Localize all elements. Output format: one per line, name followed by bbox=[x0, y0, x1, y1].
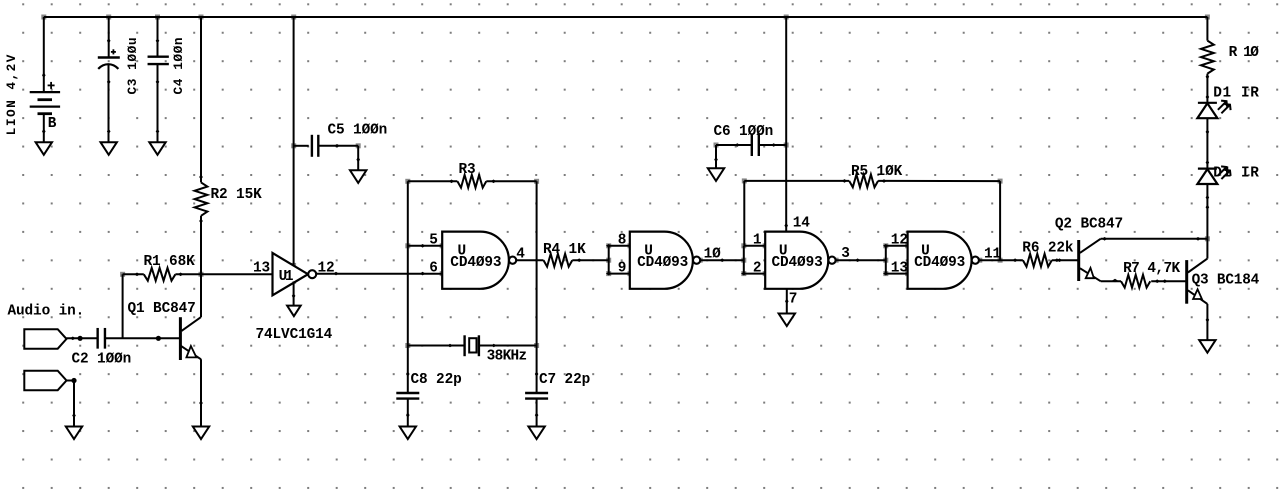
svg-text:6: 6 bbox=[429, 260, 438, 276]
resistor R1 68K bbox=[144, 254, 196, 281]
svg-text:7: 7 bbox=[789, 292, 798, 308]
ground Q1 bbox=[193, 427, 209, 440]
wire bus to R10 bbox=[1206, 17, 1208, 41]
label D1 IR upper bbox=[1213, 86, 1259, 102]
pin 1 label bbox=[753, 233, 762, 249]
resistor R 10 bbox=[1201, 41, 1259, 74]
wire U1 to ground bbox=[292, 281, 296, 305]
wire feedback left vertical bbox=[406, 181, 410, 392]
svg-text:R2 15K: R2 15K bbox=[211, 187, 263, 203]
connector audio flag 1 bbox=[24, 329, 66, 349]
wire C2 to Q1 base bbox=[105, 336, 180, 341]
transistor Q3 BC184 bbox=[1187, 259, 1260, 304]
wire C4 to ground bbox=[156, 64, 160, 142]
ground C8 bbox=[400, 427, 416, 440]
battery B LION 4,2V bbox=[30, 82, 60, 132]
capacitor C8 22p bbox=[396, 372, 461, 399]
wire gate2 input tie bbox=[606, 244, 630, 275]
wire R1 branch down bbox=[122, 274, 124, 338]
wire C7 to ground bbox=[535, 399, 539, 427]
wire R10 to LED1 bbox=[1206, 74, 1210, 103]
svg-text:74LVC1G14: 74LVC1G14 bbox=[256, 327, 333, 343]
resistor R4 1K bbox=[543, 242, 586, 267]
capacitor C3 100u bbox=[98, 49, 120, 69]
svg-text:C3 1ØØu: C3 1ØØu bbox=[125, 37, 140, 95]
wire Q2 collector to LED cathode bbox=[1101, 237, 1208, 241]
svg-text:2: 2 bbox=[753, 260, 762, 276]
wire LED2 to transistors bbox=[1206, 184, 1210, 239]
wire Q3 emitter to ground bbox=[1206, 304, 1210, 340]
pin 13 label bbox=[891, 260, 908, 276]
op-amp U1 inverter 74LVC1G14 bbox=[273, 253, 317, 295]
svg-text:C6 1ØØn: C6 1ØØn bbox=[714, 124, 774, 140]
ground C6 bbox=[708, 168, 724, 181]
wire flag1 to C2 bbox=[67, 336, 98, 341]
svg-text:Q1 BC847: Q1 BC847 bbox=[128, 301, 196, 317]
svg-text:C2 1ØØn: C2 1ØØn bbox=[72, 352, 132, 368]
svg-text:R7 4,7K: R7 4,7K bbox=[1123, 261, 1180, 277]
svg-text:CD4Ø93: CD4Ø93 bbox=[450, 255, 501, 271]
svg-text:LION 4,2V: LION 4,2V bbox=[4, 53, 19, 135]
wire C6 ground side bbox=[714, 143, 752, 168]
wire C4 to bus bbox=[156, 17, 160, 57]
pin 12 label bbox=[891, 233, 908, 249]
wire bus to U1 power bbox=[293, 17, 295, 266]
resistor R5 10K bbox=[849, 164, 902, 187]
resistor R6 22k bbox=[1022, 241, 1074, 267]
wire Q2 emitter to R7 bbox=[1101, 279, 1121, 283]
wire bus to R2 bbox=[199, 17, 203, 182]
pin 5 wire bbox=[408, 244, 442, 248]
wire R7 to Q3 base bbox=[1151, 279, 1187, 283]
svg-text:D1 IR: D1 IR bbox=[1213, 86, 1259, 102]
diode D1 IR upper bbox=[1197, 101, 1230, 119]
wire gate3 output to gate4 bbox=[836, 258, 886, 262]
resistor R2 15K bbox=[195, 182, 262, 215]
wire LED1 to LED2 bbox=[1206, 118, 1210, 168]
wire R6 to Q2 base bbox=[1052, 258, 1079, 262]
wire crystal left bbox=[408, 344, 465, 348]
label LION 4,2V bbox=[4, 53, 19, 135]
svg-text:R6 22k: R6 22k bbox=[1022, 241, 1074, 257]
pin 9 label bbox=[618, 260, 627, 276]
resistor R7 4,7K bbox=[1121, 261, 1181, 288]
nand gate U1A CD4093 bbox=[442, 232, 516, 289]
svg-text:B: B bbox=[48, 116, 57, 132]
wire feedback right vertical bbox=[535, 181, 539, 392]
wire gate4 output to R6 bbox=[979, 258, 1023, 262]
svg-text:1: 1 bbox=[753, 233, 762, 249]
wire R3 left bbox=[408, 180, 458, 184]
svg-text:8: 8 bbox=[618, 233, 627, 249]
ground C3 bbox=[101, 142, 117, 155]
ground Q3 bbox=[1199, 340, 1215, 353]
svg-text:13: 13 bbox=[253, 261, 270, 277]
capacitor C2 100n bbox=[72, 328, 132, 368]
wire Q1 collector bbox=[200, 274, 202, 317]
pin 14 label bbox=[793, 216, 811, 232]
wire gate3 input to R5 bbox=[744, 179, 849, 246]
pin 3 label bbox=[841, 246, 850, 262]
nand gate U1C CD4093 bbox=[765, 232, 835, 289]
wire node to R1 bbox=[123, 273, 144, 277]
wire U1 output to gate1 pin6 bbox=[316, 272, 442, 276]
wire crystal right bbox=[479, 344, 537, 348]
label 74LVC1G14 bbox=[256, 327, 333, 343]
capacitor C6 100n bbox=[714, 124, 774, 156]
label C3 100u bbox=[125, 37, 140, 95]
wire R4 to gate2 inputs bbox=[572, 258, 608, 262]
svg-text:9: 9 bbox=[618, 260, 627, 276]
pin 11 label bbox=[984, 247, 1002, 263]
svg-text:C4 1ØØn: C4 1ØØn bbox=[171, 37, 186, 95]
pin 7 label bbox=[789, 292, 798, 308]
svg-text:R4 1K: R4 1K bbox=[543, 242, 586, 258]
wire C6 to pin14 branch bbox=[759, 143, 786, 147]
svg-text:CD4Ø93: CD4Ø93 bbox=[772, 255, 823, 271]
wire power bus bbox=[44, 16, 1208, 18]
svg-text:5: 5 bbox=[429, 233, 438, 249]
svg-text:R 1Ø: R 1Ø bbox=[1229, 45, 1260, 61]
wire gate3 input tie bbox=[741, 246, 765, 276]
svg-text:38KHz: 38KHz bbox=[487, 349, 527, 365]
label D1 IR lower bbox=[1213, 166, 1259, 182]
wire gate2 output to gate3 bbox=[700, 258, 744, 262]
wire C3 to ground bbox=[107, 64, 111, 142]
svg-text:R1 68K: R1 68K bbox=[144, 254, 196, 270]
ground C4 bbox=[149, 142, 165, 155]
wire battery to ground bbox=[42, 114, 46, 142]
connector audio flag 2 bbox=[24, 371, 66, 391]
svg-text:14: 14 bbox=[793, 216, 811, 232]
capacitor C4 100n bbox=[148, 57, 169, 64]
ground battery bbox=[36, 142, 52, 155]
wire Q1 emitter to ground bbox=[199, 359, 203, 426]
wire R3 right bbox=[486, 180, 536, 184]
wire battery to bus bbox=[42, 17, 46, 92]
wire R1 to node bbox=[175, 273, 201, 277]
wire Q3 collector bbox=[1206, 239, 1208, 259]
pin 5 label bbox=[429, 233, 438, 249]
ground C5 bbox=[350, 170, 366, 183]
pin 12 label bbox=[318, 261, 335, 277]
wire node to U1 input bbox=[201, 273, 273, 275]
wire R2 to node bbox=[199, 216, 203, 274]
svg-text:Q3 BC184: Q3 BC184 bbox=[1192, 273, 1260, 289]
svg-text:CD4Ø93: CD4Ø93 bbox=[914, 255, 965, 271]
pin 4 label bbox=[516, 247, 525, 263]
wire C5 to ground bbox=[318, 144, 360, 170]
svg-text:R5 1ØK: R5 1ØK bbox=[851, 164, 903, 180]
junction squares on power bus and wire corners bbox=[41, 15, 1210, 349]
crystal 38KHz bbox=[465, 335, 527, 364]
capacitor C5 100n bbox=[312, 123, 387, 157]
wire bus to gate3 pin14 bbox=[784, 17, 788, 232]
svg-text:12: 12 bbox=[891, 233, 908, 249]
wire flag2 to ground bbox=[67, 378, 77, 427]
wire gate4 input tie bbox=[883, 244, 908, 275]
pin 13 label bbox=[253, 261, 270, 277]
wire R5 to gate4 output bbox=[878, 179, 1000, 260]
ground U1 bbox=[287, 306, 301, 317]
ground flag2 bbox=[66, 427, 82, 440]
wire gate1 output to R4 bbox=[516, 259, 543, 261]
svg-text:13: 13 bbox=[891, 260, 908, 276]
transistor Q1 BC847 bbox=[128, 301, 202, 360]
pin 10 label bbox=[704, 247, 722, 263]
svg-text:Audio in.: Audio in. bbox=[8, 304, 85, 320]
svg-text:C7 22p: C7 22p bbox=[539, 372, 590, 388]
ground gate3 pin7 bbox=[779, 314, 795, 327]
wire C8 to ground bbox=[406, 399, 410, 427]
pin 6 label bbox=[429, 260, 438, 276]
nand gate U1B CD4093 bbox=[630, 232, 700, 289]
wire U1 power to C5 bbox=[294, 145, 309, 147]
label C4 100n bbox=[171, 37, 186, 95]
resistor R3 bbox=[457, 162, 486, 188]
capacitor C7 22p bbox=[525, 372, 590, 399]
ground C7 bbox=[528, 427, 544, 440]
diode D1 IR lower bbox=[1197, 166, 1230, 184]
pin 2 label bbox=[753, 260, 762, 276]
svg-text:C5 1ØØn: C5 1ØØn bbox=[328, 123, 388, 139]
svg-text:R3: R3 bbox=[459, 162, 476, 178]
svg-text:C8 22p: C8 22p bbox=[411, 372, 462, 388]
svg-text:CD4Ø93: CD4Ø93 bbox=[637, 255, 688, 271]
nand gate U1D CD4093 bbox=[908, 232, 979, 289]
wire C3 to bus bbox=[107, 17, 111, 58]
wire gate3 pin7 to ground bbox=[785, 289, 789, 314]
transistor Q2 BC847 bbox=[1055, 217, 1123, 282]
label Audio in. bbox=[8, 304, 85, 320]
pin 8 label bbox=[618, 233, 627, 249]
svg-text:Q2 BC847: Q2 BC847 bbox=[1055, 217, 1123, 233]
